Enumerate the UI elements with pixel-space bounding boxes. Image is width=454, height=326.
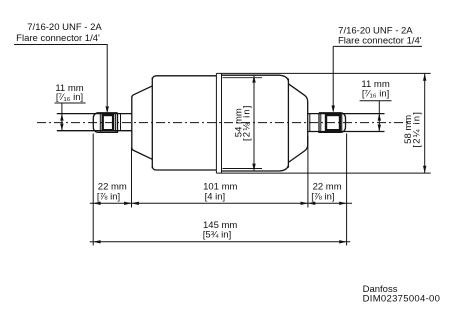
body shell left half top edge	[152, 76, 216, 80]
right cone base face	[307, 102, 309, 145]
leader right arrowhead	[332, 106, 335, 113]
chain arrows	[93, 202, 346, 205]
dim 58mm extension lines	[216, 73, 430, 173]
left cone top slant	[132, 86, 153, 97]
svg-text:[5¾ in]: [5¾ in]	[203, 230, 232, 241]
svg-text:Flare connector 1/4': Flare connector 1/4'	[16, 33, 100, 44]
left connector stub tube	[57, 114, 132, 131]
nut inner rim line right	[341, 113, 343, 133]
body right end face	[287, 79, 289, 168]
right shell bottom inner line	[223, 168, 263, 170]
svg-text:[2⅛ in]: [2⅛ in]	[242, 104, 253, 141]
dim text 58mm rotated	[403, 111, 422, 148]
right shell top inner line	[223, 77, 263, 79]
leader left arrowhead	[106, 106, 109, 113]
bottom extension lines	[93, 134, 346, 246]
body shell left half bottom edge	[152, 166, 216, 170]
dim 145mm line	[90, 241, 350, 243]
nut back rim line	[115, 113, 117, 133]
dim 11mm left arrows	[60, 114, 63, 131]
svg-text:[⅞ in]: [⅞ in]	[311, 191, 334, 202]
svg-text:[⅞ in]: [⅞ in]	[97, 191, 120, 202]
dim text 54mm rotated	[234, 104, 253, 141]
dim 11mm left: shelf	[55, 103, 86, 131]
chain dimension line	[90, 202, 352, 204]
dim 58mm arrows	[423, 73, 426, 173]
body shell right half top edge	[222, 75, 289, 81]
dim 145mm arrows	[93, 240, 346, 243]
svg-text:7/16-20 UNF - 2A: 7/16-20 UNF - 2A	[27, 22, 102, 33]
dim 54mm arrows	[252, 75, 255, 171]
nut hex face right (thick)	[326, 115, 340, 130]
nut hex face (thick)	[103, 115, 113, 130]
dim 58mm vertical line	[424, 73, 426, 173]
dim 54mm vertical line	[253, 75, 255, 171]
joint collar	[216, 73, 221, 173]
svg-text:[4 in]: [4 in]	[205, 191, 226, 202]
leader left label	[14, 45, 107, 107]
svg-text:7/16-20 UNF - 2A: 7/16-20 UNF - 2A	[338, 25, 413, 36]
left cone bottom slant	[132, 148, 153, 159]
right tube	[308, 114, 385, 132]
svg-text:Flare connector 1/4': Flare connector 1/4'	[338, 36, 422, 47]
body shell right half bottom edge	[222, 165, 289, 171]
left cone base face	[131, 97, 133, 149]
svg-text:[⁷⁄₁₆ in]: [⁷⁄₁₆ in]	[56, 92, 83, 103]
nut back ring on tube	[120, 114, 122, 131]
dim 11mm right arrows	[378, 114, 381, 132]
right cone bottom slant	[288, 145, 307, 163]
tube ring near cone	[309, 114, 311, 132]
body left end face	[151, 78, 153, 169]
nut front rim line right	[320, 114, 322, 132]
svg-text:[2¼ in]: [2¼ in]	[411, 111, 422, 148]
right cone top slant	[288, 84, 307, 102]
svg-text:DIM02375004-00: DIM02375004-00	[363, 294, 441, 305]
leader right label	[333, 46, 422, 105]
svg-text:[⁷⁄₁₆ in]: [⁷⁄₁₆ in]	[362, 88, 389, 99]
flare nut right B2	[319, 113, 346, 133]
flare nut left B1	[93, 113, 117, 133]
dim 11mm right: shelf	[360, 101, 392, 132]
centerline	[37, 122, 410, 124]
nut inner rim line	[99, 113, 101, 133]
